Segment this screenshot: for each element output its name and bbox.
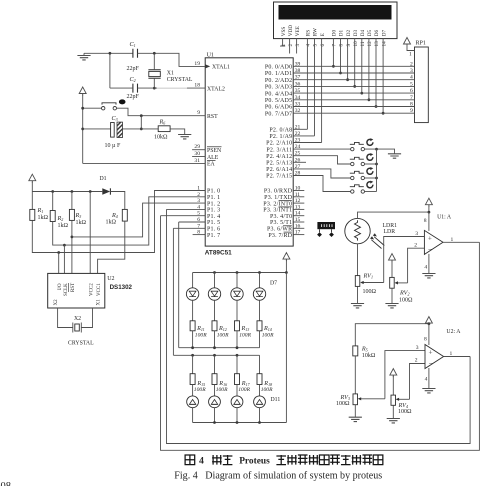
- LED D4: [186, 273, 198, 321]
- wire LCD D5 to P0.5 bus: [368, 39, 370, 100]
- svg-text:P1. 5: P1. 5: [207, 220, 220, 226]
- resistor R11 100R: [190, 321, 207, 348]
- svg-text:1kΩ: 1kΩ: [76, 220, 87, 226]
- svg-text:RS: RS: [306, 30, 312, 36]
- diode D1: [100, 176, 111, 195]
- wire VCC to RV4: [392, 376, 394, 396]
- svg-text:+: +: [428, 234, 432, 242]
- svg-text:RST: RST: [207, 114, 218, 120]
- svg-text:12: 12: [367, 41, 373, 47]
- svg-text:P3. 7/RD: P3. 7/RD: [268, 233, 292, 239]
- wire VCC rail down to EA: [82, 95, 84, 164]
- svg-text:P0. 1/AD1: P0. 1/AD1: [265, 71, 292, 77]
- svg-text:D3: D3: [353, 29, 359, 36]
- LED D11: [254, 385, 266, 423]
- svg-text:13: 13: [374, 41, 380, 47]
- resistor R13 100R: [235, 321, 252, 348]
- svg-text:C3: C3: [112, 115, 118, 122]
- node crystal bottom junction: [153, 87, 156, 90]
- svg-text:X2: X2: [54, 299, 59, 306]
- potentiometer RV4 100: [391, 395, 412, 415]
- LCD pin numbers 1-14: [281, 41, 388, 47]
- svg-text:P3. 0/RXD: P3. 0/RXD: [264, 189, 293, 195]
- wire button common vertical: [376, 149, 378, 191]
- svg-text:RST: RST: [71, 283, 76, 292]
- svg-text:R13: R13: [241, 325, 250, 332]
- svg-text:P1. 6: P1. 6: [207, 227, 220, 233]
- wire LCD RS to P2.0 pin21: [306, 39, 308, 130]
- wire C2 to XTAL2 pin 18: [138, 87, 158, 89]
- svg-text:U1: A: U1: A: [437, 215, 452, 221]
- op-amp U2:A: [415, 329, 462, 383]
- wire SW2 to common: [365, 163, 377, 165]
- svg-text:P0. 7/AD7: P0. 7/AD7: [265, 111, 292, 117]
- svg-text:100Ω: 100Ω: [336, 401, 350, 407]
- U1 pin 19 XTAL1: [194, 61, 230, 71]
- svg-text:100R: 100R: [195, 333, 207, 339]
- svg-text:R15: R15: [196, 380, 205, 387]
- capacitor C1 22pF: [127, 41, 140, 72]
- wire RV1 wiper to op-amp pin 3: [384, 237, 425, 283]
- svg-text:P2. 2/A10: P2. 2/A10: [266, 141, 292, 147]
- svg-text:AT89C51: AT89C51: [205, 250, 232, 257]
- svg-text:100Ω: 100Ω: [363, 289, 377, 295]
- resistor R5 10k: [353, 345, 376, 359]
- LCD display module LM016L: [274, 2, 398, 39]
- resistor R6 10k: [154, 119, 170, 141]
- ground under RV2: [385, 304, 398, 308]
- svg-text:P3. 6/WR: P3. 6/WR: [267, 227, 292, 233]
- svg-text:2: 2: [288, 44, 294, 47]
- svg-text:R1: R1: [37, 207, 44, 214]
- svg-text:D7: D7: [270, 280, 277, 286]
- wire U2:A pin 8 supply: [428, 324, 430, 345]
- svg-text:R4: R4: [111, 212, 118, 219]
- wire R4 to VCC1: [98, 221, 125, 273]
- wire LCD D6 to P0.6 bus: [375, 39, 377, 107]
- svg-text:ALE: ALE: [207, 155, 219, 161]
- node R3 top: [71, 190, 74, 193]
- svg-text:D1: D1: [100, 176, 107, 182]
- resistor R3 1k: [69, 192, 86, 227]
- svg-text:2: 2: [415, 358, 418, 364]
- svg-text:4: 4: [306, 44, 312, 47]
- wire R6 to ground: [170, 129, 185, 135]
- svg-text:8: 8: [424, 218, 427, 224]
- wire LCD RW to P2.1 pin22: [314, 39, 316, 136]
- wire RV3 wiper to op-amp pin 3: [385, 351, 425, 399]
- crystal X2: [58, 308, 94, 347]
- power VCC arrow LED supply: [283, 253, 290, 262]
- U1 P3.0-P3.7 pin names and numbers: [263, 186, 300, 239]
- wire LED group1 cathode bus: [179, 347, 260, 349]
- svg-text:P3. 3/INT1: P3. 3/INT1: [263, 208, 292, 214]
- svg-text:D7: D7: [381, 29, 387, 36]
- wire LDR to RV1: [357, 244, 359, 276]
- node rail-C3 junction: [81, 127, 84, 130]
- svg-text:8: 8: [424, 337, 427, 343]
- svg-text:X1: X1: [97, 299, 102, 306]
- wire R5 to RV3: [354, 356, 356, 394]
- wire LCD D0 to P0.0 bus: [332, 39, 334, 67]
- svg-text:2: 2: [414, 243, 417, 249]
- svg-text:C1: C1: [130, 41, 136, 48]
- wire LCD D2 to P0.2 bus: [347, 39, 349, 80]
- svg-text:P1. 0: P1. 0: [207, 189, 220, 195]
- wire U1:A output pin 1: [443, 241, 479, 243]
- LCD pin 2 VDD wire: [289, 39, 291, 54]
- svg-text:P2. 4/A12: P2. 4/A12: [266, 154, 292, 160]
- svg-text:100R: 100R: [262, 333, 274, 339]
- svg-text:11: 11: [360, 41, 366, 46]
- svg-text:CRYSTAL: CRYSTAL: [68, 341, 94, 347]
- node VCC2 drop: [89, 190, 92, 193]
- wire LCD D3 to P0.3 bus: [354, 39, 356, 87]
- push button SW3: [350, 167, 374, 180]
- resistor R17 100R: [235, 355, 251, 393]
- svg-text:P2. 7/A15: P2. 7/A15: [266, 174, 292, 180]
- LED D7: [253, 273, 265, 321]
- resistor R2 1k: [50, 192, 68, 230]
- resistor R12 100R: [212, 321, 229, 348]
- wire C3 to R6: [123, 128, 159, 130]
- wire VCC bus: [32, 182, 102, 192]
- svg-text:X1: X1: [167, 71, 174, 77]
- svg-text:P0. 2/AD2: P0. 2/AD2: [265, 78, 292, 84]
- svg-text:4: 4: [199, 456, 204, 467]
- wire SW1 to ground net: [365, 149, 395, 154]
- wire U2:A output pin 1: [444, 356, 471, 358]
- svg-text:29: 29: [194, 144, 200, 150]
- bar display component: [317, 222, 335, 237]
- svg-text:P3. 5/T1: P3. 5/T1: [270, 220, 292, 226]
- ground under U1:A: [422, 274, 435, 278]
- svg-text:RV2: RV2: [399, 289, 409, 296]
- svg-text:D2: D2: [346, 29, 352, 36]
- U1 P2.5 stub: [293, 161, 306, 163]
- photoresistor LDR1: [345, 218, 397, 248]
- svg-text:10kΩ: 10kΩ: [154, 134, 168, 140]
- wire P1.5 to LED group1 cathode bus: [178, 222, 180, 348]
- wire P1.6 stub: [173, 227, 205, 229]
- U1 P0.0-P0.7 pin names and numbers: [265, 61, 301, 117]
- node crystal top junction: [153, 52, 156, 55]
- wire R3 to DS1302 RST: [71, 220, 73, 273]
- svg-text:P2. 1/A9: P2. 1/A9: [269, 134, 292, 140]
- LED D9: [209, 385, 221, 423]
- svg-text:P0. 5/AD5: P0. 5/AD5: [265, 98, 292, 104]
- black indicator dot: [119, 99, 126, 104]
- svg-text:R3: R3: [75, 212, 82, 219]
- svg-text:P3. 4/T0: P3. 4/T0: [270, 214, 292, 220]
- wire R1 to I/O line: [32, 191, 205, 253]
- svg-text:100R: 100R: [239, 333, 251, 339]
- wire U2:A output return to P1.3: [167, 209, 471, 443]
- svg-text:XTAL2: XTAL2: [207, 86, 225, 92]
- svg-text:22pF: 22pF: [127, 94, 140, 100]
- svg-text:U2: U2: [107, 276, 114, 282]
- svg-text:P0. 3/AD3: P0. 3/AD3: [265, 85, 292, 91]
- wire R2 to SCLK line: [53, 197, 206, 245]
- wire P2.4 to button SW2: [293, 156, 350, 164]
- svg-text:10kΩ: 10kΩ: [362, 353, 376, 359]
- wire C1-C2 left link: [109, 53, 111, 88]
- svg-text:10: 10: [353, 41, 359, 47]
- wire U1:A pin 8 supply: [428, 212, 430, 231]
- svg-text:R18: R18: [263, 380, 272, 387]
- svg-text:D6: D6: [374, 29, 380, 36]
- svg-text:100Ω: 100Ω: [399, 297, 413, 303]
- LED D6: [231, 273, 243, 321]
- wire rail to C3: [83, 128, 111, 130]
- wire P1.4 stub: [161, 215, 206, 217]
- node rail-button junction: [81, 107, 84, 110]
- svg-text:SCLK: SCLK: [64, 283, 69, 296]
- svg-text:D0: D0: [332, 29, 338, 36]
- wire RST line to P1.2: [72, 203, 205, 237]
- wire LCD D7 to P0.7 bus: [382, 39, 384, 114]
- LED D10: [231, 385, 243, 423]
- U1 P0 bus wires to RP1: [293, 66, 414, 113]
- svg-text:P1. 7: P1. 7: [207, 233, 220, 239]
- svg-text:U2: A: U2: A: [446, 329, 461, 335]
- wire lower section VCC rail: [355, 324, 429, 346]
- svg-text:D4: D4: [360, 29, 366, 36]
- op-amp U1:A: [414, 215, 453, 271]
- wire C1 to XTAL1 pin 19: [138, 53, 206, 66]
- svg-text:RV3: RV3: [340, 394, 350, 401]
- svg-text:XTAL1: XTAL1: [212, 65, 230, 71]
- svg-text:7: 7: [332, 44, 338, 47]
- svg-text:EA: EA: [207, 162, 216, 168]
- potentiometer RV3 100: [336, 394, 385, 407]
- svg-text:D11: D11: [271, 397, 281, 403]
- svg-text:C2: C2: [130, 76, 136, 83]
- svg-text:R12: R12: [218, 325, 227, 332]
- svg-text:RV4: RV4: [398, 402, 408, 409]
- wire SW4 to common: [365, 191, 377, 193]
- node RST-C3 junction: [140, 114, 143, 117]
- svg-text:CRYSTAL: CRYSTAL: [167, 77, 193, 83]
- wire LED group1 anode bus: [193, 272, 287, 274]
- ground under RV1: [351, 304, 364, 308]
- U1 P1.0-P1.7 pin names and numbers: [197, 186, 220, 239]
- wire VCC2 to bus: [89, 192, 91, 274]
- svg-text:VCC1: VCC1: [97, 283, 102, 296]
- svg-text:R16: R16: [218, 380, 227, 387]
- svg-text:D5: D5: [367, 29, 373, 36]
- crystal X1: [148, 53, 192, 88]
- svg-text:R17: R17: [241, 380, 251, 387]
- wire VCC vertical right of LED array: [285, 273, 287, 423]
- wire LDR top to VCC node: [358, 212, 429, 218]
- svg-text:22pF: 22pF: [127, 66, 140, 72]
- wire LCD D1 to P0.1 bus: [340, 39, 342, 73]
- capacitor C3 10uF electrolytic: [105, 115, 123, 149]
- wire P2.7 to button SW4: [293, 176, 350, 192]
- svg-text:P1. 4: P1. 4: [207, 214, 220, 220]
- LED D5: [208, 273, 220, 321]
- svg-text:R14: R14: [263, 325, 272, 332]
- wire RST node down to RC row: [140, 116, 142, 129]
- svg-text:1: 1: [409, 52, 412, 58]
- svg-text:U1: U1: [207, 53, 214, 59]
- power VCC arrow at RP1 pin 1: [404, 38, 411, 47]
- wire P1.7 stub: [193, 234, 206, 236]
- svg-text:RV1: RV1: [363, 272, 373, 279]
- wire ground to C1: [84, 52, 133, 54]
- node VCC-pin8 junction: [428, 211, 431, 214]
- svg-text:VSS: VSS: [281, 27, 287, 37]
- RP1 pin numbers 2-9: [410, 61, 413, 114]
- U1 P3 pin stubs: [293, 191, 304, 235]
- svg-text:100Ω: 100Ω: [398, 409, 412, 415]
- svg-text:X2: X2: [74, 316, 81, 322]
- svg-text:DS1302: DS1302: [110, 284, 133, 291]
- node SCLK drop: [63, 244, 66, 247]
- svg-text:LDR: LDR: [384, 229, 396, 235]
- svg-text:I/O: I/O: [58, 283, 63, 290]
- capacitor C2 22pF: [127, 76, 140, 100]
- svg-text:P2. 5/A13: P2. 5/A13: [266, 161, 292, 167]
- node I/O drop: [57, 251, 60, 254]
- svg-text:R2: R2: [57, 215, 64, 222]
- LED D8: [187, 385, 199, 423]
- U1 pin 9 RST: [197, 110, 218, 120]
- svg-text:VEE: VEE: [295, 26, 301, 36]
- wire LED group2 return bus: [193, 422, 287, 424]
- svg-text:P0. 0/AD0: P0. 0/AD0: [265, 65, 292, 71]
- resistor R4 1k: [106, 209, 128, 225]
- node lower VCC junction: [428, 322, 431, 325]
- caption figure 4 chinese: [185, 455, 383, 467]
- svg-text:30: 30: [194, 151, 200, 157]
- svg-text:PSEN: PSEN: [207, 148, 222, 154]
- U1 pin 18 XTAL2: [194, 83, 225, 93]
- node RST tee: [71, 236, 74, 239]
- U1 P2.0-P2.2 stubs to LCD verticals: [293, 129, 321, 142]
- svg-text:P0. 6/AD6: P0. 6/AD6: [265, 105, 292, 111]
- wire LCD D4 to P0.4 bus: [361, 39, 363, 94]
- wire SCLK vertical: [63, 245, 65, 273]
- power VCC arrow U2:A: [425, 317, 432, 326]
- wire LED group2 drive bus: [173, 354, 259, 356]
- wire RV2 to ground: [391, 288, 393, 303]
- resistor R14 100R: [257, 321, 274, 348]
- svg-text:10 µ F: 10 µ F: [105, 143, 121, 149]
- wire U1:A pin 4 to ground: [428, 254, 430, 274]
- wire P2.3 to button SW1: [293, 148, 350, 150]
- U1 pin 30 ALE stub: [192, 151, 219, 161]
- potentiometer RV2 100: [390, 277, 413, 303]
- svg-text:P1. 2: P1. 2: [207, 201, 220, 207]
- svg-text:100R: 100R: [194, 387, 206, 393]
- power VCC arrow left bus: [29, 174, 36, 183]
- wire RV4 to ground: [392, 405, 394, 418]
- wire RV1 to ground: [357, 286, 359, 303]
- svg-text:P1. 1: P1. 1: [207, 195, 220, 201]
- wire SW3 to common: [365, 177, 377, 179]
- svg-text:5: 5: [313, 44, 319, 47]
- svg-text:P2. 6/A14: P2. 6/A14: [266, 167, 292, 173]
- svg-text:RW: RW: [313, 28, 319, 36]
- wire RV3 to ground: [354, 405, 356, 418]
- svg-text:4: 4: [424, 265, 427, 271]
- svg-text:VCC2: VCC2: [89, 283, 94, 296]
- svg-text:100R: 100R: [238, 387, 250, 393]
- resistor R1 1k: [30, 192, 49, 222]
- ground at buttons: [388, 154, 401, 158]
- U1 pin 31 EA: [194, 158, 215, 168]
- LCD pin 3 VEE wire: [296, 39, 298, 54]
- wire RP1 pin 1: [407, 46, 415, 51]
- wire D1 to R4: [110, 192, 124, 210]
- LCD pin 1 VSS stub: [280, 39, 285, 47]
- svg-text:1kΩ: 1kΩ: [38, 215, 49, 221]
- resistor R18 100R: [257, 355, 273, 393]
- node R2 top: [51, 190, 54, 193]
- svg-text:100R: 100R: [217, 333, 229, 339]
- svg-text:VDD: VDD: [288, 25, 294, 36]
- svg-text:P3. 2/INT0: P3. 2/INT0: [263, 201, 292, 207]
- svg-text:Fig. 4 Diagram of simulation: Fig. 4 Diagram of simulation of system b…: [174, 470, 382, 481]
- wire I/O vertical: [58, 253, 60, 274]
- resistor R15 100R: [190, 355, 206, 393]
- svg-text:D1: D1: [339, 29, 345, 36]
- svg-text:P2. 0/A8: P2. 0/A8: [269, 128, 292, 134]
- LCD pin name labels: [281, 25, 388, 36]
- svg-text:1kΩ: 1kΩ: [58, 223, 69, 229]
- svg-text:14: 14: [381, 41, 387, 47]
- svg-text:RP1: RP1: [416, 41, 426, 47]
- wire LCD E to P2.2 pin23: [321, 39, 323, 143]
- svg-text:Proteus: Proteus: [239, 456, 270, 466]
- push button SW1: [350, 138, 374, 151]
- resistor R16 100R: [212, 355, 228, 393]
- power VCC arrow RV2: [389, 254, 396, 263]
- svg-text:P2. 3/A11: P2. 3/A11: [266, 147, 292, 153]
- power VCC arrow RV4: [390, 369, 397, 378]
- ground under U2:A: [422, 389, 435, 393]
- svg-text:3: 3: [415, 231, 418, 237]
- potentiometer RV1 100: [355, 272, 383, 295]
- ground at reset resistor: [178, 135, 191, 139]
- svg-text:1kΩ: 1kΩ: [106, 220, 117, 226]
- ground under RV3: [349, 417, 362, 421]
- svg-text:R6: R6: [159, 119, 166, 126]
- svg-text:4: 4: [425, 377, 428, 383]
- svg-text:6: 6: [320, 44, 326, 47]
- power VCC arrow U1:A: [425, 198, 432, 207]
- svg-text:R5: R5: [361, 345, 368, 352]
- svg-text:9: 9: [346, 44, 352, 47]
- svg-text:E: E: [320, 33, 326, 36]
- wire RV2 wiper to op-amp pin 2: [408, 248, 425, 283]
- svg-text:100R: 100R: [261, 387, 273, 393]
- svg-text:P3. 1/TXD: P3. 1/TXD: [264, 195, 293, 201]
- microcontroller U1 AT89C51 body: [205, 58, 293, 246]
- wire button to RST pin 9: [117, 108, 206, 116]
- svg-text:−: −: [428, 360, 432, 368]
- svg-text:3: 3: [416, 345, 419, 351]
- wire P1.5 stub: [179, 221, 206, 223]
- ground at crystal net: [83, 53, 85, 55]
- svg-text:8: 8: [339, 44, 345, 47]
- U1 pin 29 PSEN stub: [192, 144, 222, 154]
- power VCC arrow reset rail: [79, 87, 86, 96]
- wire P2.6 to button SW3: [293, 169, 350, 178]
- RTC U2 DS1302 body: [48, 273, 133, 308]
